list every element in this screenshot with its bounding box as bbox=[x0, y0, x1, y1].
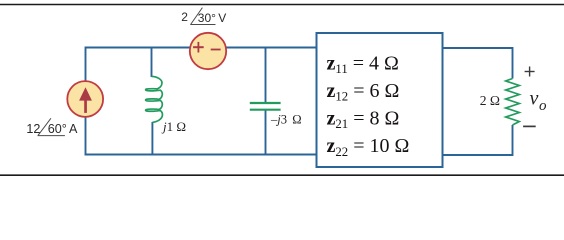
angle (phasor) symbol of 2&#8736;30&#176; V bbox=[191, 8, 203, 25]
svg-text:60°: 60° bbox=[48, 122, 67, 136]
two-port network N (z-parameter box) bbox=[317, 33, 443, 167]
svg-text:2: 2 bbox=[181, 10, 188, 24]
wire: inductor branch bottom segment bbox=[151, 122, 153, 155]
svg-text:–j3 Ω: –j3 Ω bbox=[270, 113, 302, 127]
svg-text:2 Ω: 2 Ω bbox=[480, 93, 500, 108]
voltage source V1 2&#8736;30&#176; V (circle) bbox=[190, 33, 226, 69]
current source I1 12&#8736;60&#176; A (circle) bbox=[67, 81, 103, 117]
wire: inductor branch top segment bbox=[151, 47, 153, 77]
svg-text:V: V bbox=[218, 11, 226, 25]
capacitor C1 -j3 &#937; plates bbox=[250, 102, 281, 104]
wire: top-left node from current source to voltage source bbox=[86, 48, 190, 82]
value label 2&#8736;30&#176; V for voltage source bbox=[181, 10, 226, 25]
svg-text:v: v bbox=[530, 88, 539, 110]
current source I1 arrow bbox=[79, 87, 92, 100]
svg-text:30°: 30° bbox=[198, 11, 216, 25]
voltage source V1 minus terminal mark bbox=[211, 49, 221, 51]
voltage source V1 plus terminal mark bbox=[193, 46, 204, 48]
angle (phasor) symbol of 12&#8736;60&#176; A bbox=[38, 118, 51, 135]
wire: two-port box right terminal (top) to resistor bbox=[443, 48, 513, 79]
wire: left branch below current source bbox=[85, 117, 87, 156]
bottom horizontal rule (page border) bbox=[0, 174, 564, 176]
svg-text:A: A bbox=[69, 122, 78, 136]
svg-text:j1 Ω: j1 Ω bbox=[161, 119, 186, 134]
resistor R1 2 &#937; zigzag bbox=[506, 79, 520, 126]
polarity minus sign of vo bbox=[523, 125, 536, 127]
z-parameter values text inside two-port box bbox=[327, 52, 410, 158]
polarity plus sign of vo bbox=[525, 71, 535, 73]
wire: voltage source to two-port box left terminal (top) bbox=[226, 47, 316, 49]
wire: bottom node from left branch to two-port box (bottom) bbox=[85, 154, 317, 156]
inductor L1 j1 &#937; coil bbox=[146, 76, 163, 122]
svg-text:o: o bbox=[539, 98, 547, 114]
svg-text:12: 12 bbox=[26, 122, 40, 136]
wire: two-port box right terminal (bottom) to resistor bbox=[443, 125, 513, 155]
value label 12&#8736;60&#176; A for current source bbox=[26, 122, 78, 136]
top horizontal rule (page border) bbox=[0, 4, 564, 6]
wire: capacitor branch top segment bbox=[265, 47, 267, 103]
wire: capacitor branch bottom segment bbox=[265, 110, 267, 156]
